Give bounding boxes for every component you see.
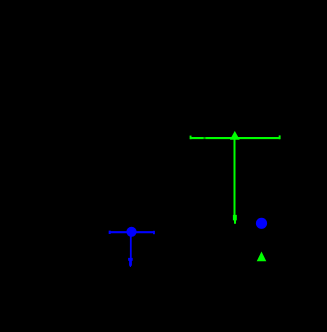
green errorbar segment junction notch [204,136,206,140]
blue circle marker (data point) [126,227,136,237]
blue errorbar left cap [109,231,111,234]
blue x-errorbar line [109,231,154,233]
green errorbar left cap [190,136,192,140]
standalone blue circle marker [256,218,267,229]
blue down-arrow head (lower limit) [128,258,133,267]
green x-errorbar line [190,137,280,139]
green y-error vertical line [234,138,236,215]
green triangle marker (data point) [230,131,240,140]
standalone green triangle marker [257,252,267,262]
blue y-error vertical line [130,233,132,258]
green errorbar right cap [279,135,281,139]
blue errorbar right cap [153,231,155,234]
green down-arrow head (lower limit) [233,215,237,224]
